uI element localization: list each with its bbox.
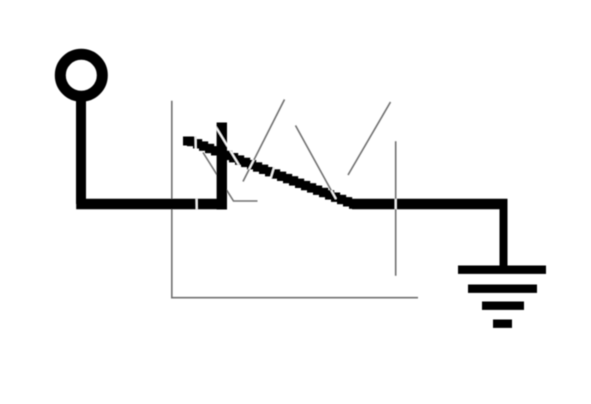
watermark diagonal D3 — [348, 102, 391, 175]
watermark white lines (visible only over ink) — [195, 100, 395, 276]
watermark diagonal D2 — [296, 126, 335, 196]
white continuation of D2 over blade — [296, 126, 337, 200]
watermark elbow line D5 — [203, 153, 258, 202]
white continuation of D1 over blade — [240, 100, 285, 188]
white vertical S1 over blob and wire — [195, 130, 196, 214]
watermark diagonal D1 — [243, 100, 285, 182]
white diagonal D4 over pole and blade — [214, 123, 246, 175]
circuit ink — [60, 54, 546, 328]
watermark right vertical — [395, 141, 397, 275]
watermark gray lines (under ink) — [172, 100, 418, 298]
watermark left vertical + bottom horizontal — [172, 101, 418, 298]
white slit S4 over blade — [269, 160, 276, 183]
white continuation of right vertical over wire — [395, 141, 397, 275]
